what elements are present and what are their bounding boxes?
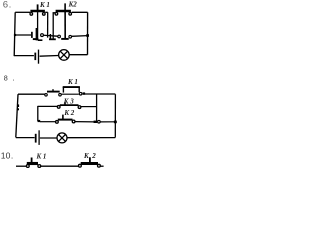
wire top right [85,93,116,95]
left edge wire [16,94,18,137]
nicks on left edge [18,104,20,107]
node ring bottom of branch [94,121,98,123]
wire K1 right to junction [45,11,48,13]
junction dot right of K1 [83,92,86,94]
switch K2 handle drop wire [64,3,66,39]
switch S2 lever [61,38,68,40]
switch K2 [79,157,101,167]
svg-text:K 1: K 1 [39,1,50,9]
lamp L1 [59,50,70,61]
svg-text:K 1: K 1 [67,78,78,86]
junction square on inner corner [38,120,41,122]
switch S1 (unlabeled) [45,89,62,96]
wire battery to lamp [40,137,57,139]
switch K1 bridge [63,87,82,95]
bar under cell [33,38,39,40]
junction dot on left edge [14,34,16,36]
svg-text:K 2: K 2 [63,109,74,117]
right edge wire [114,94,116,137]
svg-text:K2: K2 [68,0,78,8]
wire junction drop (right of K1) [47,12,49,37]
wire right [100,165,103,167]
switch S2 right contact [69,35,72,38]
battery cell short plate [31,32,33,38]
battery cell long plate [35,28,37,40]
switch K1 handle drop wire [37,12,39,40]
wire top left [15,11,30,13]
middle row wire from left edge [15,34,31,36]
node foot under K1 drop [38,39,43,41]
left edge wire [14,12,15,56]
battery cell 2 short plate [49,34,51,39]
battery thick plate [35,134,37,143]
middle wire to switch S2 [52,35,58,37]
wire ring to switch S2 [44,34,52,37]
wire lamp to right edge [69,54,87,56]
wire K2 row right to edge [75,121,94,123]
switch K2 [56,115,75,124]
middle wire to right edge [72,35,88,38]
node foot under corner C [49,38,56,40]
svg-text:K 1: K 1 [36,152,47,160]
right edge wire [87,12,89,54]
wire K3 row left [38,105,58,107]
switch K2 [55,11,71,15]
wire middle [41,165,79,167]
switch K3 [57,102,80,109]
wire battery to lamp [40,55,59,58]
bottom wire left [16,137,35,139]
wire between switches [62,93,79,95]
svg-text:6: 6 [3,0,8,11]
lamp L2 [57,133,67,143]
wire corner left of K2, drop to battery row [53,13,55,39]
node ring (junction) [41,34,44,37]
svg-text:.: . [12,74,14,83]
svg-text:K: K [83,152,90,160]
wire lamp to right edge [67,137,115,139]
switch K1 [26,158,40,168]
junction dot at right edge [114,121,117,124]
wire K2 row left [40,121,55,123]
battery long plate [38,130,40,145]
svg-text:8: 8 [4,73,8,82]
svg-text:2: 2 [91,152,96,160]
wire K3 row right [81,106,97,108]
wire left [16,165,27,167]
wire top right [72,11,88,13]
svg-text:10: 10 [1,151,11,161]
bottom wire left [14,55,34,57]
branch vertical from top wire [96,94,98,121]
battery B thick plate [34,53,36,61]
switch K1 [30,4,45,15]
wire top left [18,93,45,95]
svg-text:.: . [9,0,12,10]
inner branch vertical [37,106,39,121]
battery B long plate [38,50,40,64]
svg-text:.: . [11,151,13,161]
switch S2 left contact [58,35,61,38]
junction dot on right edge [86,34,89,37]
